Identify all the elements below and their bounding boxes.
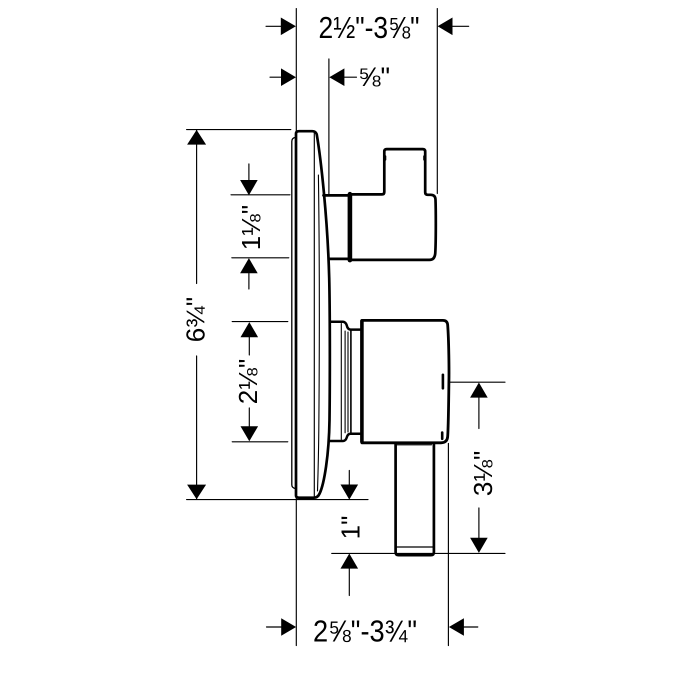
extension line 5/8 at plate front [328,59,330,195]
volume lever top line [396,444,432,446]
dimension 1 1/8: top arrow [248,164,250,180]
lower sleeve outer step bottom [330,434,362,441]
dimension 2 5/8 - 3 3/4 bottom: left arrow [267,626,282,628]
dimension 1 inch: bottom arrow [348,569,350,596]
dimension 1 inch: top arrow [348,471,350,485]
temperature handle tick right [423,156,425,160]
svg-text:1": 1" [336,516,366,540]
svg-text:1⅛": 1⅛" [236,205,266,250]
escutcheon plate back rim [292,137,296,488]
dimension 2 1/8: up arrow [248,337,250,355]
extension line right of top handle [436,9,438,194]
svg-text:2½"-3⅝": 2½"-3⅝" [319,10,420,45]
extension line plate bottom [187,499,368,501]
dimension 6 3/4 up arrow [187,130,206,145]
extension line plate top [187,129,291,131]
volume lever outline [396,444,434,555]
volume handle body left edge [360,321,364,442]
extension line stem top 1 1/8 [231,194,290,196]
volume handle tick upper [442,375,445,389]
volume handle tick lower [441,433,444,439]
dimension 2 1/8: down arrow [248,408,250,426]
svg-text:3⅛": 3⅛" [468,451,498,496]
extension line 3 1/8 top mark [450,381,505,383]
extension line stem bottom 1 1/8 [232,257,289,259]
plate dome crease line [318,175,320,491]
temperature handle body with lever up [352,149,436,260]
escutcheon plate outline [296,131,330,498]
sleeve ring line 2 [344,331,346,433]
volume handle body [362,320,449,442]
volume lever cap line [397,546,434,548]
plate face inner line [313,133,315,498]
svg-text:6¾": 6¾" [181,297,211,342]
extension line sleeve top 2 1/8 [232,321,288,323]
dimension 2 5/8 - 3 3/4 bottom: right arrow [464,626,478,628]
sleeve ring line 1 [340,324,342,440]
dimension 5/8: right arrow [344,76,356,78]
wall / finished surface extension line [295,9,297,646]
sleeve ring line 3 [347,332,349,432]
dimension 2 1/2 - 3 5/8 top: right arrow [452,25,468,27]
dimension 3 1/8: up arrow [478,398,480,429]
dimension 1 1/8: bottom arrow [248,274,250,290]
temperature handle joint [348,194,353,260]
svg-text:2⅝"-3¾": 2⅝"-3¾" [313,613,417,648]
dimension 6 3/4 down arrow [187,485,206,500]
svg-text:2⅛": 2⅛" [233,359,263,404]
temperature handle stem top edge [324,194,348,197]
svg-text:⅝": ⅝" [358,62,390,92]
extension line right of lower handle body [447,444,449,646]
extension line body bottom 2 1/8 [232,441,288,443]
sleeve ring line 4 [350,331,352,433]
extension line lever bottom [332,552,505,554]
dimension 2 1/2 - 3 5/8 top: left arrow [266,25,281,27]
lower sleeve outer step top [330,322,362,330]
dimension 3 1/8: down arrow [478,508,480,538]
temperature handle tick left [384,156,386,160]
dimension 6 3/4 vertical line [196,130,198,499]
temperature handle stem bottom edge [329,258,348,261]
dimension 5/8: left arrow [270,76,281,78]
